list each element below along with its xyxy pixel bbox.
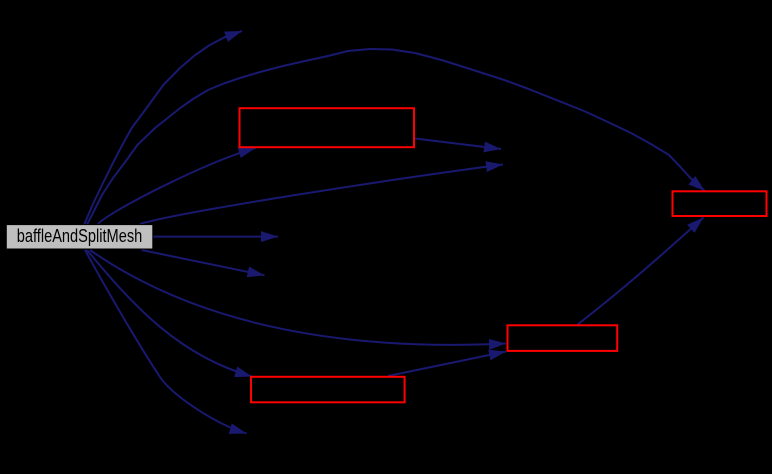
node baffleAndSplitMesh: [6, 225, 153, 249]
wire edge R4 to R3: [388, 352, 506, 377]
wire edge node to red box R1: [98, 148, 256, 224]
wire edge node to middle red box R3: [90, 250, 506, 345]
wire edge node to bottom invisible node: [85, 250, 247, 434]
wire edge R1 to invisible node: [415, 139, 501, 150]
red box R4 (bottom left): [251, 377, 405, 403]
wire edge node to top invisible node: [84, 31, 242, 225]
wire edge node to invisible node (horizontal): [153, 236, 278, 238]
svg-text:baffleAndSplitMesh: baffleAndSplitMesh: [17, 226, 143, 246]
wire edge R3 to R2: [577, 218, 704, 326]
wire edge node to bottom-left red box R4: [87, 250, 252, 377]
wire edge node to invisible node (down-right short): [142, 250, 265, 275]
wire edge node to invisible node mid-right: [140, 165, 503, 225]
red box R3 (middle bottom): [508, 325, 618, 351]
wire edge node to right red box R2 (top curve): [87, 49, 705, 225]
red box R1 (top): [240, 108, 415, 147]
red box R2 (right): [673, 191, 767, 216]
